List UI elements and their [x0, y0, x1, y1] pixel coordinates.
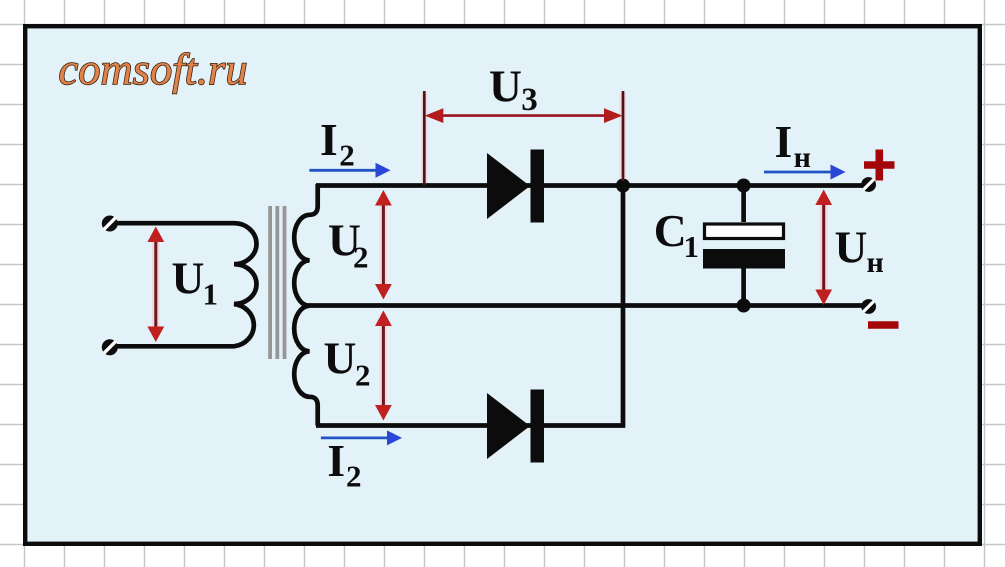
svg-text:2: 2 — [339, 138, 355, 173]
dimension: U3 extension ticks — [424, 93, 623, 183]
svg-text:2: 2 — [346, 458, 362, 493]
terminal: + output — [861, 177, 876, 192]
transformer core (3 lamination bars) — [268, 206, 286, 359]
svg-text:2: 2 — [355, 357, 371, 392]
svg-text:C: C — [654, 205, 687, 256]
diode VD1 (top) — [487, 150, 544, 223]
node: capacitor bottom junction — [737, 299, 751, 313]
svg-text:н: н — [867, 246, 884, 279]
polarity mark - — [868, 321, 899, 329]
svg-text:U: U — [172, 253, 205, 304]
wire: center-tap rail to - output — [308, 303, 862, 308]
current arrow I2 bottom (blue) — [321, 430, 402, 445]
terminal: primary top input — [102, 216, 118, 232]
dimension: UH arrow — [815, 190, 832, 306]
dimension: U3 horizontal arrow — [425, 108, 623, 123]
polarity mark + — [864, 150, 895, 181]
current arrow I2 top (blue) — [309, 163, 390, 178]
winding: transformer primary L1 with leads — [110, 223, 257, 346]
svg-text:I: I — [327, 435, 345, 486]
svg-text:comsoft.ru: comsoft.ru — [59, 44, 248, 94]
node: junction of diode outputs — [616, 179, 630, 193]
svg-text:I: I — [320, 114, 338, 165]
diode VD2 (bottom) — [487, 390, 544, 463]
wire: top rail (anode rail to + output) — [316, 183, 862, 188]
svg-text:U: U — [489, 61, 522, 112]
svg-text:н: н — [794, 141, 811, 174]
svg-text:3: 3 — [521, 82, 538, 118]
winding: transformer secondary (center-tapped) — [294, 184, 318, 426]
svg-text:I: I — [775, 116, 793, 167]
wire: bottom rail and riser from lower diode to top node — [316, 186, 623, 426]
capacitor C1 (polarized) — [703, 186, 785, 306]
svg-text:U: U — [835, 221, 868, 272]
terminal: - output — [861, 299, 876, 314]
svg-text:1: 1 — [684, 229, 700, 264]
node: capacitor top junction — [737, 179, 751, 193]
dimension: U1 arrow — [147, 227, 164, 343]
current arrow IH (blue) — [764, 165, 846, 180]
dimension: U2 lower arrow — [375, 311, 392, 421]
svg-text:U: U — [324, 333, 357, 384]
svg-text:1: 1 — [203, 277, 219, 312]
dimension: U2 upper arrow — [375, 190, 392, 300]
svg-text:2: 2 — [353, 239, 369, 274]
terminal: primary bottom input — [102, 339, 118, 355]
